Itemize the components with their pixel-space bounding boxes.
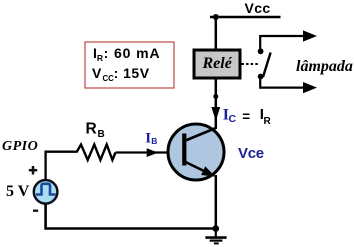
svg-text:Relé: Relé (202, 55, 233, 72)
svg-text:C: C (229, 113, 237, 125)
arrow lamp bottom (303, 82, 317, 93)
wire relay to collector (215, 80, 218, 130)
switch blade (263, 53, 271, 78)
node Vcc junction (213, 14, 219, 20)
info box (85, 42, 174, 88)
resistor RB (76, 145, 115, 161)
label plus (29, 166, 37, 175)
switch top stem (259, 35, 261, 49)
transistor emitter arrow (201, 166, 215, 176)
svg-text:GPIO: GPIO (2, 139, 38, 154)
svg-text:R: R (264, 116, 272, 127)
current arrow IB (147, 148, 159, 157)
svg-text:CC: CC (103, 74, 115, 83)
svg-text:=: = (242, 109, 250, 124)
wire source top to base loop corner (46, 152, 77, 180)
arrow lamp top (303, 30, 317, 41)
ground symbol (205, 229, 226, 244)
switch bottom stem (260, 79, 304, 88)
wire source bottom to ground rail (46, 204, 216, 229)
wire Vcc rail to relay (215, 17, 218, 50)
source V1 5V pulse (34, 180, 58, 204)
transistor emitter stroke (186, 162, 206, 172)
svg-text:: 60 mA: : 60 mA (104, 45, 161, 61)
wire lamp top (260, 35, 304, 37)
svg-text:lâmpada: lâmpada (296, 58, 353, 75)
transistor collector stroke (186, 128, 216, 141)
svg-text:B: B (98, 129, 105, 140)
svg-text:R: R (97, 53, 103, 63)
svg-text:Vce: Vce (238, 145, 264, 162)
relay K1 box (194, 50, 240, 78)
svg-text:B: B (151, 136, 157, 146)
label minus (33, 210, 38, 212)
node ground junction (213, 225, 220, 232)
current arrow Ic (down) (211, 107, 220, 121)
wire top Vcc rail (210, 16, 281, 19)
wire resistor to base (116, 151, 184, 153)
svg-text:5 V: 5 V (6, 183, 30, 200)
svg-text:: 15V: : 15V (114, 65, 150, 81)
node collector wire dot (213, 94, 218, 99)
transistor Q1 body (168, 124, 224, 180)
source pulse glyph (36, 184, 56, 195)
transistor base bar (182, 134, 186, 166)
svg-text:Vcc: Vcc (245, 0, 271, 16)
switch top contact (258, 48, 264, 54)
wire emitter to ground rail (215, 175, 218, 229)
svg-text:V: V (92, 65, 102, 81)
svg-text:R: R (86, 121, 97, 138)
switch bottom contact (258, 74, 264, 80)
dashed link relay to switch (242, 63, 259, 65)
